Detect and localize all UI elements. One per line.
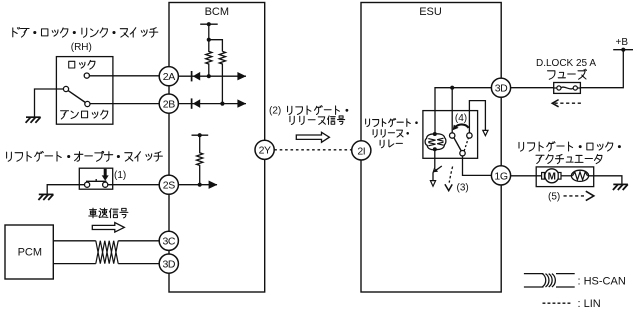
connector pin 2S [159,175,178,194]
door lock link switch SW1 box [56,57,113,125]
connector pin 3C [159,231,178,250]
+B supply node [613,37,633,52]
svg-text:2I: 2I [357,145,365,157]
wire fuse to +B [580,50,623,88]
svg-text:PCM: PCM [18,247,42,259]
label: D.LOCK 25 A fuse [536,58,596,79]
PCM module box [5,225,53,279]
label (1) [114,170,126,181]
svg-text:(RH): (RH) [71,42,92,53]
svg-text:2A: 2A [163,71,175,83]
wire 3D(ESU) to relay [435,86,491,134]
label: liftgate lock actuator [519,142,621,164]
wire common contact to ground [35,89,64,117]
svg-text:3C: 3C [162,236,175,248]
label: vehicle speed signal [89,208,128,218]
BCM 2S supply bar [192,133,209,137]
LIN wire 2Y to 2I (dashed) [274,149,351,151]
connector pin 2I [352,141,371,160]
wire relay common to 1G [463,156,492,176]
svg-text:(2): (2) [269,105,281,116]
fuse F1 [554,83,581,94]
connector pin 2B [159,94,178,113]
ESU module box [361,3,501,293]
wire PCM to 3D (twisted pair lower) [53,263,159,265]
legend HS-CAN symbol [524,274,626,288]
svg-text:M: M [548,172,556,183]
svg-text:ESU: ESU [419,6,442,18]
wire PCM to 3C (twisted pair upper) [53,240,159,242]
svg-text:D.LOCK 25 A: D.LOCK 25 A [536,58,596,69]
svg-text:: HS-CAN: : HS-CAN [578,275,626,287]
svg-text:3D: 3D [495,83,508,95]
svg-text:BCM: BCM [205,6,229,18]
svg-text:1G: 1G [494,170,507,182]
resistor R3 (pull-up to 2S) [197,135,203,187]
svg-text:(3): (3) [457,183,469,194]
svg-text:(1): (1) [114,170,126,181]
wire unlock contact to pin 2B [90,103,159,105]
label (3) with dashed arrow [445,167,469,194]
liftgate opener switch SW2 [79,168,112,189]
svg-text:2S: 2S [163,180,175,192]
connector pin 3D (ESU) [491,78,510,97]
label: door lock link switch (RH) [13,27,158,53]
label (5) with dashed arrow [548,191,594,202]
ground G1 [26,117,41,123]
label: liftgate release relay [366,118,418,147]
wire coil to ground [589,176,622,185]
connector pin 2A [159,67,178,86]
ground G3 [613,184,628,190]
relay coil [425,132,446,151]
wire 2S internal with arrow [178,181,217,189]
resistor R2 (pull-up to 2B) [209,40,226,106]
release signal direction arrow [296,132,329,142]
speed signal direction arrow [92,223,124,233]
switch contacts and arm [63,73,90,107]
legend LIN symbol [543,298,601,310]
svg-text:(4): (4) [455,113,467,124]
svg-text:3D: 3D [162,259,175,271]
wire relay coil to ground arrow [430,149,441,186]
wire opener switch to ground [47,185,84,195]
connector pin 3D (BCM) [159,254,178,273]
twisted pair braid [96,241,118,264]
label: (2) liftgate release signal [269,105,348,124]
wire relay NC contact to open arrow [469,101,488,136]
wire opener switch to pin 2S [108,184,160,186]
diode D2 on 2B line [192,98,201,108]
svg-text:: LIN: : LIN [578,298,601,310]
label (4) with actuation arrow [453,113,469,130]
BCM module box [169,3,265,293]
svg-text:2Y: 2Y [259,145,271,157]
actuator box [536,167,594,187]
wire 2B internal with arrow [178,99,246,107]
relay K1 box [423,111,478,159]
label: liftgate opener switch [7,151,163,161]
relay switch [450,133,473,156]
actuator coil [571,170,588,181]
wire 1G to actuator [511,175,545,177]
battery feed direction arrow (dashed, left) [552,100,582,107]
ground G2 [38,194,53,200]
connector pin 2Y [255,140,274,159]
motor M [542,169,561,183]
wire lock contact to pin 2A [90,75,160,77]
BCM internal supply bar [200,22,218,26]
svg-text:(5): (5) [548,192,560,203]
resistor R1 (pull-up to 2A) [206,24,212,78]
wire 2A internal with arrow [178,72,246,80]
diode D1 on 2A line [192,71,201,81]
wire motor to coil [561,175,571,177]
connector pin 1G [491,166,510,185]
wire 3D(ESU) to fuse [511,87,554,89]
svg-text:2B: 2B [163,99,175,111]
svg-text:+B: +B [616,37,629,48]
